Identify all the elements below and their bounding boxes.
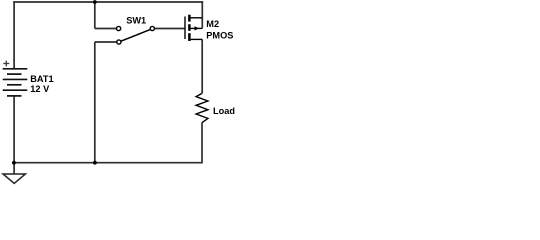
svg-text:BAT1: BAT1 <box>30 74 53 84</box>
svg-text:Load: Load <box>213 106 235 116</box>
svg-text:M2: M2 <box>206 19 219 29</box>
svg-text:PMOS: PMOS <box>206 31 233 41</box>
svg-text:SW1: SW1 <box>126 16 146 26</box>
svg-text:12 V: 12 V <box>30 84 50 94</box>
